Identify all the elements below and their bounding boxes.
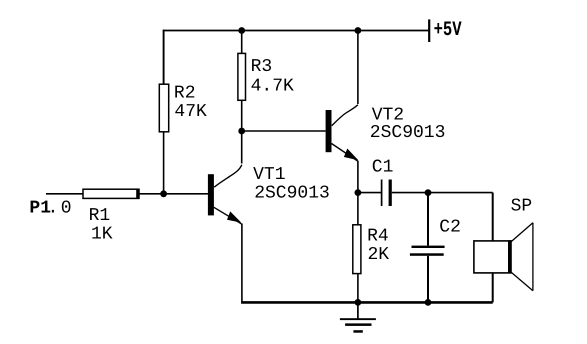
capacitor C1 left plate (381, 180, 383, 207)
svg-text:47K: 47K (174, 102, 207, 122)
svg-text:VT1: VT1 (253, 165, 285, 185)
wire R3 bottom lead (241, 100, 243, 131)
junction node R1/R2 (160, 190, 167, 197)
wire VT2 base (242, 130, 326, 132)
wire to C1 left plate (358, 192, 381, 194)
svg-text:2SC9013: 2SC9013 (370, 123, 446, 143)
wire bottom ground rail (241, 301, 493, 304)
svg-text:C2: C2 (439, 217, 461, 237)
junction node ground/R4 (355, 299, 362, 306)
wire C1 to speaker branch (392, 192, 493, 194)
resistor R1 bold right edge (136, 189, 139, 199)
wire R2 top lead (163, 30, 165, 84)
wire VT1 collector lead curve (214, 165, 242, 187)
svg-text:+5V: +5V (434, 19, 463, 42)
speaker horn top diagonal (511, 223, 533, 242)
ground bar 3 (353, 330, 362, 333)
resistor R2 (159, 84, 168, 132)
junction node VT2 emitter/C1/R4 (355, 189, 362, 196)
junction node C2 bottom (425, 299, 432, 306)
speaker SP bold right edge (508, 240, 511, 273)
svg-text:2K: 2K (368, 245, 390, 265)
wire R1 to VT1 base (139, 193, 208, 195)
wire C2 top lead (427, 193, 429, 246)
svg-text:1K: 1K (91, 225, 113, 245)
wire VT2 emitter vertical (357, 161, 359, 193)
speaker SP box (474, 241, 511, 273)
svg-text:4.7K: 4.7K (251, 76, 294, 96)
speaker horn bottom diagonal (511, 272, 533, 291)
arrow VT2 emitter (344, 149, 359, 161)
wire input from P1.0 (46, 193, 83, 195)
svg-text:R2: R2 (174, 84, 196, 104)
wire R3 top lead (241, 31, 243, 54)
wire speaker bottom lead (492, 273, 494, 303)
capacitor C2 top plate (412, 246, 445, 248)
capacitor C1 right plate (389, 180, 392, 207)
svg-text:SP: SP (511, 197, 533, 217)
speaker horn mouth vertical (532, 223, 534, 291)
wire R4 top lead (357, 193, 359, 225)
junction node C2 top (425, 189, 432, 196)
svg-text:R4: R4 (367, 226, 389, 246)
svg-text:R1: R1 (89, 206, 111, 226)
svg-text:C1: C1 (372, 157, 394, 177)
wire VT2 collector lead curve (332, 105, 358, 126)
resistor R4 (353, 225, 361, 274)
resistor R1 (83, 189, 139, 198)
wire VT1 collector vertical (241, 131, 243, 164)
power +5V terminal bar (428, 19, 430, 42)
wire VT2 emitter lead (332, 144, 359, 162)
svg-text:2SC9013: 2SC9013 (254, 183, 330, 203)
junction node R3/VT1 collector/VT2 base (238, 128, 245, 135)
wire R4 bottom lead (357, 274, 359, 303)
wire R2 bottom lead (163, 132, 165, 194)
ground bar 2 (345, 323, 371, 326)
transistor VT2 base bar (326, 110, 332, 152)
wire VT1 emitter vertical (241, 224, 243, 303)
ground stem (357, 302, 359, 319)
transistor VT1 base bar (208, 174, 214, 215)
wire VT2 collector vertical (357, 31, 359, 105)
wire VT1 emitter lead (214, 207, 242, 224)
wire top supply rail (163, 30, 429, 32)
wire C2 bottom lead (427, 256, 429, 303)
wire speaker top lead (492, 193, 494, 241)
resistor R3 (238, 53, 246, 100)
arrow VT1 emitter (227, 211, 241, 222)
svg-text:R3: R3 (251, 57, 273, 77)
junction node top rail VT2 collector (355, 27, 362, 34)
svg-text:P1.0: P1.0 (29, 199, 71, 219)
capacitor C2 bottom plate (410, 253, 444, 256)
ground bar 1 (340, 318, 376, 320)
junction node top rail R3 (238, 27, 245, 34)
